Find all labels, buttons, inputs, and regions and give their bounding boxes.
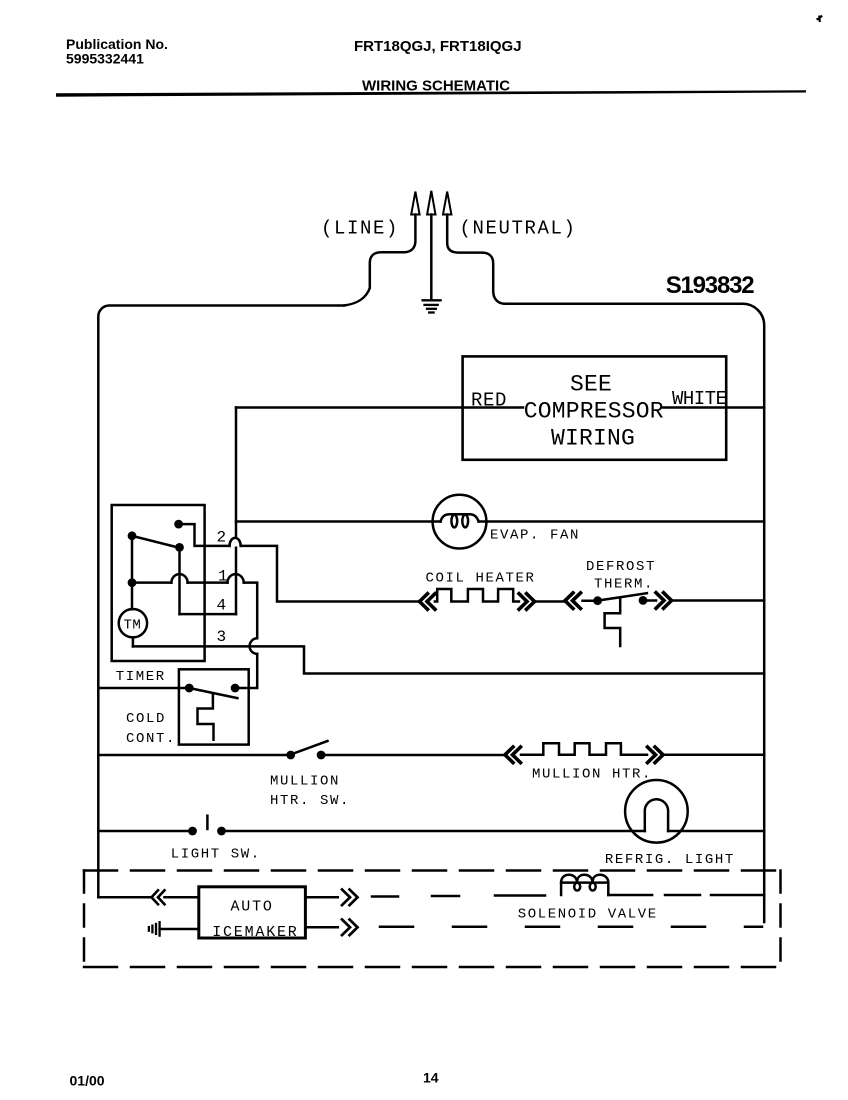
hop: contact-1 wire over wiper leg	[171, 574, 187, 583]
refrigerator light bulb circle	[625, 780, 688, 843]
wire: light rail from left border	[98, 830, 192, 833]
auto icemaker box	[199, 887, 306, 938]
coil heater element	[435, 589, 519, 602]
timer box	[112, 505, 205, 661]
svg-text:MULLION HTR.: MULLION HTR.	[532, 767, 652, 783]
svg-text:14: 14	[423, 1070, 439, 1086]
light switch dot right	[217, 827, 226, 836]
cold control blade	[189, 688, 237, 698]
svg-text:LIGHT SW.: LIGHT SW.	[171, 847, 261, 863]
hop: contact-1 wire over feeder	[228, 574, 244, 583]
page corner mark	[817, 16, 823, 23]
wire: dashed bottom run	[380, 926, 762, 929]
wire: timer pin 4 link	[180, 613, 237, 616]
dashed option box right	[779, 871, 782, 968]
timer motor TM circle	[119, 609, 147, 637]
evap fan coil squiggle	[441, 514, 479, 521]
wire: TM to neutral run	[132, 637, 135, 646]
svg-text:REFRIG. LIGHT: REFRIG. LIGHT	[605, 852, 735, 868]
main border left + top-left corner	[98, 306, 344, 898]
hop: cold-control leg around neutral run	[250, 638, 258, 654]
svg-text:3: 3	[217, 628, 227, 646]
svg-text:(LINE): (LINE)	[321, 218, 399, 240]
wire: timer left leg	[131, 536, 134, 610]
neutral entry S-curve (right)	[447, 215, 505, 304]
wire: dashed run to solenoid	[372, 896, 545, 897]
icemaker chevron right bottom	[342, 920, 358, 936]
wire: coil heater to defrost therm	[535, 600, 565, 603]
light switch dot left	[188, 827, 197, 836]
mullion heater switch blade	[292, 741, 328, 754]
svg-text:CONT.: CONT.	[126, 731, 176, 747]
prong arrow NEUTRAL	[443, 192, 451, 215]
wire: timer contact 1 runout	[132, 583, 257, 688]
svg-text:HTR. SW.: HTR. SW.	[270, 793, 350, 809]
svg-text:COLD: COLD	[126, 711, 166, 727]
svg-text:COIL HEATER: COIL HEATER	[426, 571, 536, 587]
wire: left border into icemaker rail	[98, 896, 151, 899]
svg-text:ICEMAKER: ICEMAKER	[212, 924, 298, 941]
defrost therm sensing capillary	[605, 598, 621, 646]
solenoid coil loop 2	[590, 883, 596, 891]
timer contact dot (left)	[128, 531, 137, 540]
svg-text:THERM.: THERM.	[594, 577, 654, 593]
header: publication number	[66, 36, 168, 67]
cold control contact dot left	[185, 684, 194, 693]
wire: chevron to icemaker box	[165, 896, 199, 899]
wire: evap fan branch	[236, 520, 433, 523]
solenoid valve coil	[561, 883, 608, 895]
timer contact dot (pin 1)	[128, 578, 137, 587]
wire: defrost therm chevron left	[565, 593, 581, 609]
evap fan motor circle	[433, 495, 487, 549]
wire: coil heater chevron right	[519, 594, 535, 610]
evap fan coil loop 2	[462, 515, 468, 528]
mullion heater element	[521, 743, 647, 755]
wire: evap fan to right border	[486, 520, 764, 523]
wire: vertical feeder from compressor bus	[235, 408, 238, 615]
svg-text:SOLENOID VALVE: SOLENOID VALVE	[518, 907, 658, 923]
svg-text:5995332441: 5995332441	[66, 51, 144, 67]
svg-text:TM: TM	[124, 618, 142, 634]
main border top-right + right edge	[505, 304, 764, 922]
wire: icemaker output top	[305, 896, 337, 899]
svg-text:S193832: S193832	[666, 272, 755, 299]
dashed option box bottom	[84, 966, 781, 969]
svg-text:MULLION: MULLION	[270, 774, 340, 790]
prong arrow LINE	[411, 192, 419, 215]
svg-text:SEE: SEE	[570, 372, 612, 398]
svg-text:WIRING: WIRING	[551, 426, 635, 452]
svg-text:WHITE: WHITE	[672, 388, 727, 410]
wire: defrost therm chevron right	[656, 593, 672, 609]
wire: timer wiper leg	[178, 547, 181, 614]
wire: left rail to cold control	[98, 687, 189, 690]
icemaker ground symbol	[149, 922, 160, 935]
wire: lamp to right border	[668, 830, 764, 833]
wire: compressor bus left segment (RED side)	[236, 406, 523, 409]
timer contact dot (wiper)	[175, 543, 184, 552]
wire: light switch to lamp	[222, 830, 645, 833]
wire: icemaker output bottom	[305, 926, 337, 929]
ground symbol (plug)	[423, 300, 441, 312]
wire: timer pin 3 neutral run	[133, 646, 764, 673]
header rule	[56, 90, 806, 96]
svg-text:2: 2	[217, 529, 227, 547]
wire: solenoid to right border	[608, 894, 764, 897]
compressor box	[463, 356, 727, 459]
wire: defrost therm gap line	[583, 599, 657, 602]
svg-text:1: 1	[218, 568, 228, 586]
hop: contact-2 wire over feeder	[230, 538, 241, 546]
svg-text:COMPRESSOR: COMPRESSOR	[524, 399, 664, 425]
svg-text:01/00: 01/00	[70, 1073, 105, 1089]
wire: coil heater chevron left	[420, 594, 436, 610]
wire: mullion heater chevron right	[648, 747, 664, 763]
cold control box	[179, 669, 249, 744]
timer contact dot (pin 2)	[174, 520, 183, 529]
wire: mullion heater to right border	[664, 754, 765, 757]
prong arrow ground (center)	[427, 191, 435, 215]
defrost therm contact dot right	[639, 596, 648, 605]
defrost therm contact dot left	[593, 596, 602, 605]
cold control sensing element	[198, 693, 214, 740]
dashed option box top	[84, 869, 781, 872]
cold control contact dot right	[231, 684, 240, 693]
wire: mullion switch to heater	[321, 754, 505, 757]
wire: timer contact 2 runout	[179, 524, 418, 601]
mullion heater switch dot left	[286, 751, 295, 760]
wire: compressor bus right segment (WHITE side)	[663, 406, 764, 409]
svg-text:FRT18QGJ, FRT18IQGJ: FRT18QGJ, FRT18IQGJ	[354, 38, 522, 55]
timer switch blade	[132, 536, 181, 548]
wire: ground to icemaker box	[160, 928, 199, 931]
solenoid coil loop 1	[574, 883, 580, 891]
wire: mullion heater chevron left	[505, 747, 521, 763]
light switch plunger	[206, 816, 209, 829]
refrigerator light filament	[645, 799, 668, 831]
svg-text:EVAP. FAN: EVAP. FAN	[490, 528, 580, 544]
mullion heater switch dot right	[317, 751, 326, 760]
wire: defrost therm to right border	[672, 599, 764, 602]
svg-text:4: 4	[217, 597, 227, 615]
evap fan interior stubs	[433, 520, 487, 523]
icemaker chevron right top	[342, 890, 358, 906]
svg-text:RED: RED	[471, 390, 507, 412]
wire: mullion rail from left border	[98, 754, 290, 757]
svg-text:DEFROST: DEFROST	[586, 559, 656, 575]
svg-text:TIMER: TIMER	[116, 669, 166, 685]
ground wire (center prong)	[430, 215, 433, 300]
svg-text:AUTO: AUTO	[231, 899, 274, 916]
dashed option box left	[83, 871, 86, 968]
defrost therm blade	[599, 593, 647, 600]
evap fan coil loop 1	[451, 515, 457, 528]
line entry S-curve (left)	[344, 215, 415, 306]
icemaker chevron left	[152, 890, 165, 904]
svg-text:(NEUTRAL): (NEUTRAL)	[460, 218, 577, 240]
